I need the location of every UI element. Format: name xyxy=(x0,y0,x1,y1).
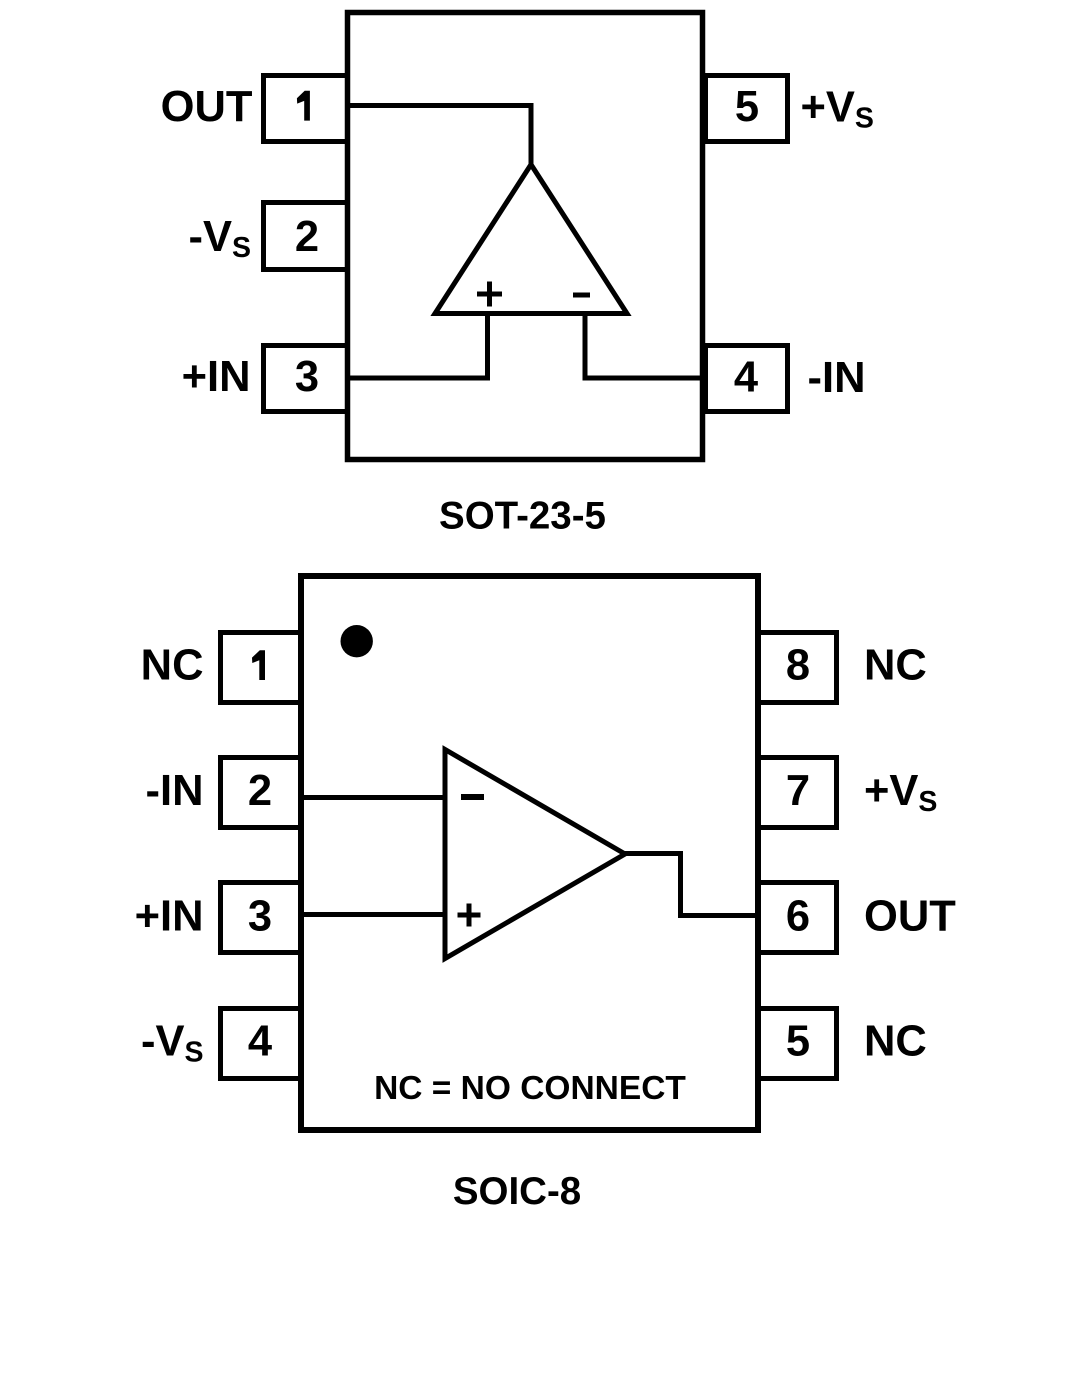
svg-text:NC: NC xyxy=(864,1018,927,1066)
svg-text:-IN: -IN xyxy=(808,354,866,402)
wire pin1 OUT to op-amp apex xyxy=(350,106,531,168)
svg-text:OUT: OUT xyxy=(161,83,253,131)
svg-text:OUT: OUT xyxy=(864,893,956,941)
pin box 1 (NC) xyxy=(221,633,301,703)
svg-text:-IN: -IN xyxy=(146,767,204,815)
svg-text:3: 3 xyxy=(295,353,319,401)
svg-text:7: 7 xyxy=(786,767,810,815)
pin box 5 (NC) xyxy=(759,1009,837,1079)
pin box 3 (+IN) xyxy=(221,883,301,953)
pin 1 number xyxy=(252,650,265,680)
svg-text:2: 2 xyxy=(248,767,272,815)
svg-text:4: 4 xyxy=(734,354,758,402)
svg-text:+IN: +IN xyxy=(135,893,204,941)
pin box 2 (-IN) xyxy=(221,758,301,828)
svg-text:8: 8 xyxy=(786,642,810,690)
package body SOT-23-5 xyxy=(348,13,703,460)
svg-text:NC: NC xyxy=(141,642,204,690)
pin box 1 (OUT) xyxy=(264,76,348,142)
pin-1 index dot xyxy=(341,625,373,657)
svg-text:+IN: +IN xyxy=(182,353,251,401)
plus symbol inside SOIC triangle xyxy=(458,904,481,927)
pin box 4 (-Vs) xyxy=(221,1009,301,1079)
wire op-amp output to pin6 xyxy=(623,854,758,916)
pin box 4 (-IN) xyxy=(706,346,788,412)
wire pin3 +IN to triangle xyxy=(350,313,488,378)
svg-text:4: 4 xyxy=(248,1018,272,1066)
svg-text:2: 2 xyxy=(295,213,319,261)
pin box 3 (+IN) xyxy=(264,346,348,412)
pin box 2 (-Vs) xyxy=(264,203,348,270)
svg-text:SOT-23-5: SOT-23-5 xyxy=(439,495,606,538)
svg-text:NC = NO CONNECT: NC = NO CONNECT xyxy=(374,1070,686,1107)
svg-text:5: 5 xyxy=(735,83,759,131)
pin box 8 (NC) xyxy=(759,633,837,703)
op-amp triangle (SOT) xyxy=(435,165,627,314)
wire pin2 -IN to op-amp xyxy=(303,795,445,800)
wire pin3 +IN to op-amp xyxy=(303,912,445,917)
pin 1 number xyxy=(297,91,310,121)
wire pin4 -IN from triangle xyxy=(585,313,703,378)
op-amp triangle (SOIC) xyxy=(445,750,625,959)
svg-text:SOIC-8: SOIC-8 xyxy=(453,1170,581,1213)
svg-text:NC: NC xyxy=(864,642,927,690)
svg-text:6: 6 xyxy=(786,893,810,941)
minus symbol inside triangle xyxy=(573,293,590,298)
minus symbol inside SOIC triangle xyxy=(461,794,484,800)
svg-text:5: 5 xyxy=(786,1018,810,1066)
svg-text:3: 3 xyxy=(248,893,272,941)
pin box 7 (+Vs) xyxy=(759,758,837,828)
pin box 6 (OUT) xyxy=(759,883,837,953)
pin box 5 (+Vs) xyxy=(706,76,788,142)
plus symbol inside triangle xyxy=(477,282,502,307)
package body SOIC-8 xyxy=(301,576,758,1130)
